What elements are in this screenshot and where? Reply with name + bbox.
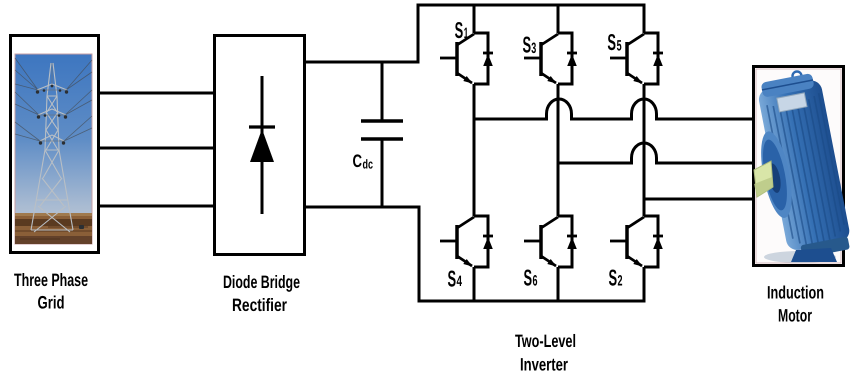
transistor S4 (IGBT with anti-parallel diode): [440, 216, 493, 267]
label S1: [455, 17, 469, 43]
wire: phase C output: [644, 198, 753, 201]
svg-text:S: S: [607, 29, 616, 55]
label S3: [523, 31, 537, 57]
label: Induction Motor: [767, 283, 824, 326]
svg-text:Two-Level: Two-Level: [515, 331, 576, 351]
svg-text:Induction: Induction: [767, 283, 824, 303]
diode bridge rectifier box: [215, 36, 305, 255]
wire: leg C middle: [643, 84, 646, 216]
label: Diode Bridge Rectifier: [223, 272, 300, 315]
wire: dc- bus rectifier to inverter: [305, 206, 421, 209]
capacitor Cdc: [361, 62, 403, 207]
wire: leg C top stub: [643, 5, 646, 33]
wire: phase b grid to rectifier: [98, 147, 214, 150]
wire: inverter left edge top: [417, 4, 420, 64]
svg-text:dc: dc: [363, 157, 374, 172]
grid photo (transmission tower): [15, 54, 92, 244]
transistor S6 (IGBT with anti-parallel diode): [524, 216, 577, 267]
wire: inverter left edge bottom: [418, 206, 421, 303]
svg-text:Motor: Motor: [778, 306, 812, 326]
label Cdc: [353, 151, 374, 172]
wire: leg B bottom stub: [557, 267, 560, 303]
svg-text:Grid: Grid: [38, 293, 65, 313]
wire: leg A middle: [473, 84, 476, 216]
label: Two-Level Inverter: [515, 331, 576, 375]
wire: leg C bottom stub: [643, 267, 646, 303]
wire: phase A output with hops: [474, 99, 753, 119]
svg-text:Rectifier: Rectifier: [232, 295, 287, 315]
wire: dc+ bus rectifier to inverter: [305, 61, 420, 64]
motor photo (induction motor): [746, 69, 850, 263]
transistor S5 (IGBT with anti-parallel diode): [610, 33, 663, 84]
label S4: [448, 265, 463, 291]
wire: leg A top stub: [473, 5, 476, 33]
label: Three Phase Grid: [14, 270, 88, 313]
induction motor box: [754, 67, 844, 266]
wire: phase B output with hop: [558, 143, 753, 163]
diode D1 (bridge symbol): [249, 76, 275, 214]
svg-text:5: 5: [617, 38, 622, 55]
transistor S3 (IGBT with anti-parallel diode): [524, 33, 577, 84]
svg-text:4: 4: [457, 273, 463, 290]
svg-text:Three Phase: Three Phase: [14, 270, 88, 290]
svg-text:S: S: [609, 265, 618, 291]
svg-text:Inverter: Inverter: [520, 355, 568, 375]
transistor S2 (IGBT with anti-parallel diode): [610, 216, 663, 267]
svg-text:C: C: [353, 151, 363, 171]
svg-text:S: S: [455, 17, 464, 43]
label S5: [607, 29, 621, 55]
svg-text:2: 2: [618, 273, 623, 290]
svg-text:S: S: [448, 265, 457, 291]
label S2: [609, 265, 623, 291]
wire: leg B top stub: [557, 5, 560, 33]
wire: inverter bottom rail: [418, 300, 646, 303]
wire: leg B middle: [557, 84, 560, 216]
three phase grid box: [11, 36, 99, 253]
transistor S1 (IGBT with anti-parallel diode): [440, 33, 493, 84]
label S6: [524, 265, 538, 291]
wire: phase a grid to rectifier: [98, 92, 214, 95]
wire: leg A bottom stub: [473, 267, 476, 303]
svg-text:3: 3: [531, 40, 536, 57]
svg-text:Diode Bridge: Diode Bridge: [223, 272, 300, 292]
svg-text:1: 1: [464, 25, 469, 42]
wire: inverter top rail: [417, 4, 646, 7]
svg-text:S: S: [524, 265, 533, 291]
svg-text:6: 6: [533, 273, 538, 290]
wire: phase c grid to rectifier: [98, 205, 214, 208]
svg-text:S: S: [523, 31, 532, 57]
